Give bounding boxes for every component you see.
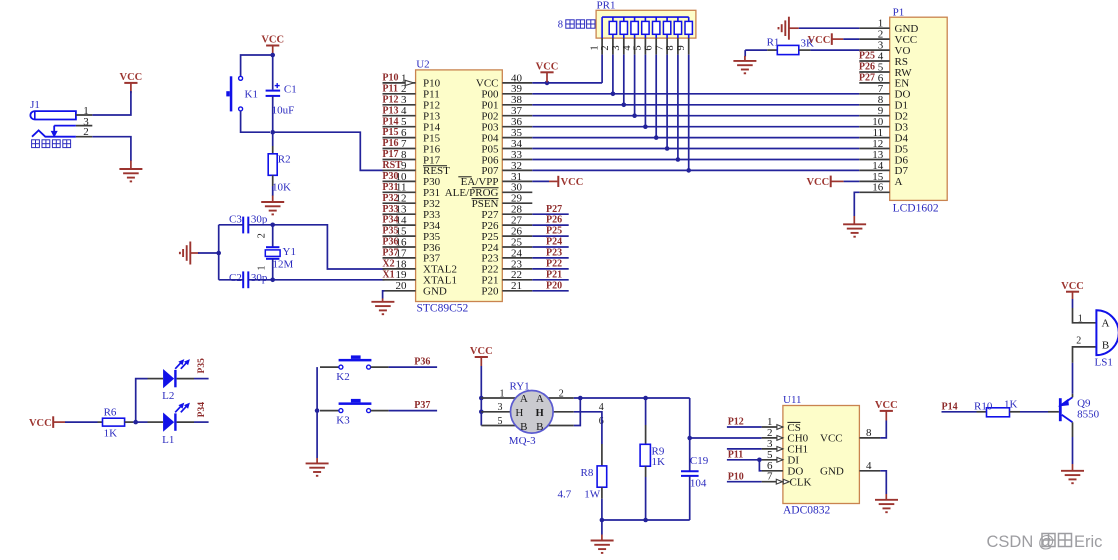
svg-text:H: H	[536, 407, 544, 419]
svg-text:P20: P20	[481, 286, 499, 298]
pin U2-17 (left)	[383, 257, 416, 259]
pin U2-25 (right)	[502, 246, 532, 248]
pin U2-32 (right)	[502, 169, 532, 171]
junction dot	[479, 410, 484, 415]
svg-text:1K: 1K	[652, 456, 666, 468]
svg-text:10K: 10K	[272, 182, 291, 194]
svg-text:P22: P22	[546, 259, 562, 270]
capacitor C1	[272, 57, 274, 90]
PR1 resistor element 4	[644, 17, 646, 21]
svg-text:U11: U11	[783, 394, 802, 406]
wire C3 right	[248, 224, 272, 226]
svg-text:STC89C52: STC89C52	[417, 302, 469, 314]
pin U2-6 (left)	[383, 137, 416, 139]
ground (Q9)	[1072, 470, 1074, 472]
power VCC (LCD pin2)	[831, 33, 833, 45]
svg-text:P30: P30	[382, 171, 398, 182]
svg-text:2: 2	[1076, 336, 1081, 347]
pin U2-13 (left)	[383, 213, 416, 215]
pin U2-28 (right)	[502, 213, 532, 215]
svg-text:VCC: VCC	[120, 72, 143, 83]
pin PR1-1	[601, 38, 603, 55]
wire PR1 pin9 to P07	[688, 55, 690, 171]
connector P1 LCD1602	[890, 17, 948, 200]
junction dot	[216, 251, 221, 256]
power VCC (R6)	[52, 416, 54, 428]
svg-text:P35: P35	[382, 226, 398, 237]
pushbutton K3	[320, 410, 339, 412]
svg-text:20: 20	[396, 280, 408, 292]
svg-text:P12: P12	[382, 94, 398, 105]
PR1 resistor element 5	[655, 17, 657, 21]
svg-text:8: 8	[665, 45, 676, 50]
wire C2 right to XTAL1	[248, 279, 272, 281]
pin U2-33 (right)	[502, 159, 532, 161]
svg-text:8: 8	[558, 20, 563, 31]
pin U2-23 (right)	[502, 268, 532, 270]
wire K2/K3 common	[316, 367, 318, 458]
wire PR1 pin7 to P05	[666, 55, 668, 149]
pin RY1-1	[481, 397, 520, 399]
pin P1-6	[859, 82, 889, 84]
input arrow U11	[777, 436, 783, 441]
power VCC (U11 pin8)	[880, 421, 886, 438]
svg-text:R2: R2	[278, 154, 291, 166]
wire P06 bus	[532, 159, 859, 161]
power VCC (LS1)	[1072, 299, 1074, 308]
resistor R9	[645, 398, 647, 425]
svg-text:P17: P17	[382, 149, 398, 160]
svg-text:A: A	[520, 393, 528, 405]
svg-text:P36: P36	[414, 357, 430, 368]
svg-text:P34: P34	[197, 402, 207, 418]
svg-text:3: 3	[498, 402, 503, 413]
svg-text:Eric: Eric	[1074, 533, 1102, 551]
pin U2-4 (left)	[383, 115, 416, 117]
pin U2-35 (right)	[502, 137, 532, 139]
PR1 resistor element 2	[623, 17, 625, 21]
svg-text:R6: R6	[104, 406, 117, 418]
wire R10 to base	[1020, 411, 1048, 413]
svg-text:1K: 1K	[1004, 398, 1018, 410]
pin U2-16 (left)	[383, 246, 416, 248]
junction dot	[270, 53, 275, 58]
pin U11-5	[762, 459, 783, 461]
svg-text:1K: 1K	[104, 427, 118, 439]
pin U2-29 (right)	[502, 202, 532, 204]
pin P1-4	[859, 60, 889, 62]
pin RY1-3	[481, 411, 520, 413]
pin P1-7	[859, 93, 889, 95]
overline CS	[787, 421, 800, 423]
wire C3 left	[219, 224, 244, 226]
svg-text:P27: P27	[859, 73, 875, 84]
pin LS1-1	[1073, 308, 1097, 323]
pin U2-40 (right)	[502, 82, 532, 84]
pin U2-39 (right)	[502, 93, 532, 95]
svg-text:VCC: VCC	[29, 418, 52, 429]
svg-text:1: 1	[589, 45, 600, 50]
resistor R10	[977, 411, 987, 413]
wire P00 bus	[532, 93, 859, 95]
pin P1-13	[859, 159, 889, 161]
svg-text:P26: P26	[546, 215, 562, 226]
svg-text:H: H	[515, 407, 523, 419]
ground (sensor group)	[601, 520, 603, 535]
wire to RST pin	[273, 132, 385, 170]
ground (R1)	[744, 50, 746, 56]
net label P23 stub	[532, 257, 568, 259]
pin PR1-4	[634, 38, 636, 55]
svg-text:A: A	[536, 393, 544, 405]
svg-text:4.7: 4.7	[558, 489, 572, 501]
pin U2-14 (left)	[383, 224, 416, 226]
ground (R2)	[272, 196, 274, 203]
net label P11 wire (DI)	[727, 459, 762, 461]
wire PR1 pin8 to P06	[677, 55, 679, 160]
pin PR1-7	[666, 38, 668, 55]
label 电源接口	[32, 140, 40, 148]
wire PR1 pin3 to P01	[623, 55, 625, 105]
svg-text:P37: P37	[414, 400, 430, 411]
PR1 resistor element 1	[612, 17, 614, 21]
pin RY1-6	[543, 425, 574, 427]
input arrow U11	[777, 425, 783, 430]
junction dot	[315, 408, 320, 413]
pin U2-7 (left)	[383, 148, 416, 150]
PR1 resistor element 6	[666, 17, 668, 21]
svg-text:LS1: LS1	[1095, 357, 1113, 369]
net label P10 wire (CLK)	[727, 481, 762, 483]
pin U2-36 (right)	[502, 126, 532, 128]
wire PR1 pin5 to P03	[644, 55, 646, 127]
pin U2-37 (right)	[502, 115, 532, 117]
wire J1 pin2 to ground	[92, 137, 131, 161]
svg-text:P34: P34	[382, 215, 398, 226]
wire collector to ground	[1072, 422, 1074, 437]
pin U2-9 (left)	[383, 169, 416, 171]
svg-text:P16: P16	[382, 138, 398, 149]
svg-text:B: B	[1102, 339, 1109, 351]
svg-text:B: B	[520, 421, 527, 433]
wire P07 bus	[532, 169, 859, 171]
ground (U2 pin20)	[383, 291, 385, 299]
wire K1 bottom	[241, 111, 270, 132]
svg-text:P14: P14	[942, 401, 958, 412]
pin U2-19 (left)	[383, 279, 416, 281]
pin U2-12 (left)	[383, 202, 416, 204]
power VCC (J1)	[124, 82, 137, 84]
pin U2-34 (right)	[502, 148, 532, 150]
svg-text:5: 5	[498, 416, 503, 427]
pin U2-11 (left)	[383, 191, 416, 193]
pin P1-1	[859, 27, 889, 29]
pin P1-3	[859, 49, 889, 51]
resistor R8	[601, 444, 603, 466]
svg-text:P1: P1	[893, 7, 905, 19]
pin P1-8	[859, 104, 889, 106]
svg-text:L1: L1	[162, 434, 174, 446]
svg-text:VCC: VCC	[561, 177, 584, 188]
wire sensor left vertical	[480, 398, 482, 426]
power VCC (U2 pin40)	[532, 82, 602, 84]
svg-text:P24: P24	[546, 237, 562, 248]
wire emitter to LS1	[1072, 394, 1074, 398]
svg-text:2: 2	[256, 233, 267, 238]
svg-text:3: 3	[611, 45, 622, 50]
svg-text:PR1: PR1	[597, 0, 616, 11]
svg-text:8550: 8550	[1077, 408, 1100, 420]
pin U2-2 (left)	[383, 93, 416, 95]
pin P1-11	[859, 137, 889, 139]
pin U2-26 (right)	[502, 235, 532, 237]
pin U11-3	[762, 448, 783, 450]
pin U11-7	[762, 481, 783, 483]
pin U2-3 (left)	[383, 104, 416, 106]
svg-text:P12: P12	[728, 417, 744, 428]
wire P01 bus	[532, 104, 859, 106]
power VCC (RY1)	[475, 356, 488, 358]
pin U2-1 (left)	[383, 82, 416, 84]
transistor Q9 8550	[1059, 398, 1062, 421]
pin U2-22 (right)	[502, 279, 532, 281]
svg-text:P32: P32	[382, 193, 398, 204]
svg-text:P10: P10	[382, 73, 398, 84]
svg-text:VCC: VCC	[536, 62, 559, 73]
svg-text:3K: 3K	[801, 38, 815, 50]
wire pin4 to R8	[574, 412, 602, 444]
pin P1-2	[859, 38, 889, 40]
ground (LCD pin16)	[854, 192, 859, 216]
svg-text:10uF: 10uF	[272, 104, 295, 116]
svg-text:X1: X1	[382, 269, 394, 280]
svg-text:1: 1	[500, 388, 505, 399]
svg-text:P11: P11	[382, 83, 398, 94]
wire to L1	[136, 421, 148, 423]
svg-text:C19: C19	[690, 455, 709, 467]
pin P1-14	[859, 169, 889, 171]
pin J1-3	[76, 125, 92, 127]
svg-text:K1: K1	[245, 88, 258, 100]
pin U2-38 (right)	[502, 104, 532, 106]
junction dot	[133, 420, 138, 425]
pin U2-24 (right)	[502, 257, 532, 259]
IC U2 STC89C52	[416, 70, 503, 302]
net label P12 wire	[727, 426, 762, 428]
wire PR1 pin6 to P04	[655, 55, 657, 138]
svg-text:12M: 12M	[273, 259, 294, 271]
wire PR1 pin2 to P00	[612, 55, 614, 94]
wire bottom rail	[602, 519, 690, 521]
power VCC (K1/C1)	[266, 45, 279, 47]
svg-text:MQ-3: MQ-3	[509, 435, 536, 447]
wire P03 bus	[532, 126, 859, 128]
pin PR1-2	[612, 38, 614, 55]
crystal Y1	[272, 225, 274, 247]
pin U2-18 (left)	[383, 268, 416, 270]
pin LS1-2	[1073, 347, 1097, 363]
PR1 resistor element 8	[688, 17, 690, 21]
net label P20 stub	[532, 290, 568, 292]
power VCC (U2 pin31 EA/VPP)	[532, 180, 549, 182]
svg-text:C1: C1	[284, 83, 297, 95]
svg-text:30p: 30p	[251, 214, 268, 226]
svg-text:P14: P14	[382, 116, 398, 127]
svg-text:VCC: VCC	[820, 433, 843, 445]
svg-text:2: 2	[600, 45, 611, 50]
junction dot	[270, 130, 275, 135]
pin U2-30 (right)	[502, 191, 532, 193]
wire PR1 pin4 to P02	[634, 55, 636, 116]
wire sensor to ADC CH0	[690, 437, 762, 439]
pin PR1-9	[688, 38, 690, 55]
svg-text:RST: RST	[382, 160, 402, 171]
svg-text:1: 1	[1078, 313, 1083, 324]
wire CH1 stub	[727, 448, 762, 450]
junction dot	[479, 396, 484, 401]
svg-text:P13: P13	[382, 105, 398, 116]
pin PR1-5	[644, 38, 646, 55]
net label P26 stub	[532, 224, 568, 226]
svg-text:B: B	[536, 421, 543, 433]
pin P1-15	[859, 180, 889, 182]
svg-text:C2: C2	[229, 272, 242, 284]
pin U11-2	[762, 437, 783, 439]
svg-text:P37: P37	[382, 248, 398, 259]
svg-text:R10: R10	[974, 400, 993, 412]
svg-text:J1: J1	[30, 99, 40, 111]
svg-text:P25: P25	[859, 51, 875, 62]
pin P1-16	[859, 191, 889, 193]
svg-text:A: A	[895, 176, 903, 188]
resistor R6	[98, 421, 103, 423]
PR1 resistor element 3	[634, 17, 636, 21]
svg-text:9: 9	[676, 45, 687, 50]
net label P22 stub	[532, 268, 568, 270]
svg-text:VCC: VCC	[470, 346, 493, 357]
PR1 resistor element 7	[677, 17, 679, 21]
sensor body RY1 MQ-3	[511, 391, 554, 434]
capacitor C2	[242, 271, 244, 288]
svg-text:P11: P11	[728, 449, 744, 460]
input arrow U11	[777, 457, 783, 462]
wire P05 bus	[532, 148, 859, 150]
svg-text:5: 5	[633, 45, 644, 50]
junction dot DI/DO	[757, 458, 762, 463]
ground (K2/K3)	[316, 458, 318, 463]
capacitor C19	[689, 398, 691, 471]
svg-text:104: 104	[690, 477, 707, 489]
pin U2-27 (right)	[502, 224, 532, 226]
net label P27 stub	[532, 213, 568, 215]
svg-text:16: 16	[872, 182, 884, 194]
pin U2-10 (left)	[383, 180, 416, 182]
pin RY1-5	[481, 425, 520, 427]
svg-text:P27: P27	[546, 204, 562, 215]
input arrow U11	[777, 447, 783, 452]
svg-text:P10: P10	[728, 471, 744, 482]
svg-text:P25: P25	[546, 226, 562, 237]
svg-text:1: 1	[256, 266, 267, 271]
svg-text:4: 4	[866, 460, 872, 472]
overline REST	[423, 165, 447, 167]
svg-text:1W: 1W	[584, 488, 601, 500]
junction dot	[270, 223, 275, 228]
svg-text:P35: P35	[197, 358, 207, 374]
svg-text:U2: U2	[416, 59, 429, 71]
svg-text:RY1: RY1	[510, 381, 530, 393]
wire to XTAL2	[273, 225, 385, 269]
svg-text:P23: P23	[546, 248, 562, 259]
ground (J1)	[130, 161, 132, 170]
connector J1	[30, 111, 76, 119]
svg-text:P21: P21	[546, 269, 562, 280]
svg-text:GND: GND	[423, 286, 447, 298]
svg-text:K2: K2	[336, 371, 349, 383]
net label P14 wire	[942, 411, 977, 413]
svg-text:Y1: Y1	[283, 246, 296, 258]
svg-text:P15: P15	[382, 127, 398, 138]
pin P1-5	[859, 71, 889, 73]
power VCC (LCD pin15)	[830, 176, 832, 188]
pin PR1-8	[677, 38, 679, 55]
svg-text:R1: R1	[767, 37, 780, 49]
pin U2-21 (right)	[502, 290, 532, 292]
overline EA	[458, 176, 471, 178]
resistor R2	[272, 132, 274, 146]
overline PSEN	[472, 198, 499, 200]
svg-text:A: A	[1102, 317, 1110, 329]
wire PR1 pin1 to VCC rail	[601, 55, 603, 83]
svg-text:ADC0832: ADC0832	[783, 505, 831, 517]
svg-text:L2: L2	[162, 390, 174, 402]
svg-text:2: 2	[559, 388, 564, 399]
ground (LCD pin1)	[789, 27, 799, 29]
svg-text:7: 7	[767, 471, 773, 483]
pin J1-2	[76, 136, 92, 138]
pin P1-10	[859, 126, 889, 128]
pin U2-15 (left)	[383, 235, 416, 237]
svg-text:P33: P33	[382, 204, 398, 215]
ground (U11 pin4)	[880, 471, 886, 494]
ground (crystal)	[190, 252, 199, 254]
svg-text:VCC: VCC	[1061, 281, 1084, 292]
svg-text:CSDN @: CSDN @	[987, 533, 1055, 551]
pin J1-1	[76, 114, 92, 116]
svg-text:P36: P36	[382, 237, 398, 248]
pin U11-1	[762, 426, 783, 428]
pushbutton K1	[239, 76, 243, 80]
overline PROG	[472, 187, 499, 189]
wire branch to L2	[136, 379, 148, 423]
svg-text:30p: 30p	[251, 272, 268, 284]
LED L2	[148, 378, 164, 380]
wire P04 bus	[532, 137, 859, 139]
wire K1 top	[241, 55, 273, 76]
svg-text:21: 21	[511, 280, 522, 292]
net label P21 stub	[532, 279, 568, 281]
svg-text:CLK: CLK	[790, 477, 812, 489]
pin U11-6	[762, 470, 783, 472]
LED L1	[148, 421, 164, 423]
pin U2-31 (right)	[502, 180, 532, 182]
svg-text:LCD1602: LCD1602	[893, 203, 939, 215]
clock arrows U11 CLK	[776, 479, 782, 484]
wire crystal left vertical	[218, 225, 220, 280]
wire pin6 to pin2	[574, 398, 581, 426]
svg-text:4: 4	[622, 45, 633, 51]
pin RY1-4	[543, 411, 574, 413]
